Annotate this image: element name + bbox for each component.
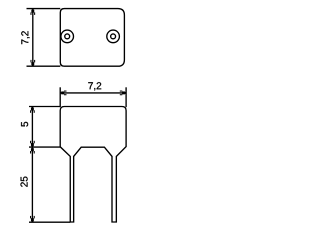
arrow left of 7,2 width dimension (60, 91, 66, 96)
pin 1 outer circle (top view) (61, 30, 74, 43)
extension line left (7,2 width dimension) (59, 87, 61, 107)
arrow down of 25 dimension (30, 216, 35, 222)
extension line at body bottom (5 / 25 dimensions) (29, 146, 60, 148)
label 7,2 (front view width) (88, 82, 101, 90)
arrow up of 7,2 depth dimension (30, 9, 35, 15)
arrow down of 7,2 depth dimension (30, 60, 35, 66)
extension line right (7,2 width dimension) (125, 87, 127, 107)
label 25 (lead length) rotated (21, 177, 28, 187)
top view body outline (60, 9, 124, 67)
pin 2 outer circle (top view) (107, 30, 120, 43)
arrow up of 5 dimension (30, 107, 35, 113)
extension line bottom of leads (25 dimension) (29, 221, 70, 223)
arrow down of 5 dimension (30, 141, 35, 147)
extension line bottom (7,2 depth dimension) (27, 65, 61, 67)
dimension line 7,2 width (horizontal) (61, 92, 126, 94)
pin 1 inner circle (top view) (65, 34, 70, 39)
dimension line 5 (vertical) (31, 107, 33, 147)
arrow right of 7,2 width dimension (120, 91, 126, 96)
dimension line 25 (vertical) (31, 147, 33, 222)
pin 2 inner circle (top view) (111, 34, 116, 39)
extension line left of body top (5 dimension) (29, 106, 60, 108)
label 7,2 (top view depth) rotated (21, 31, 29, 44)
front view body with leads outline (60, 107, 126, 223)
extension line top (7,2 depth dimension) (27, 8, 61, 10)
dimension line 7,2 depth (vertical) (32, 9, 34, 66)
arrow up of 25 dimension (30, 147, 35, 153)
label 5 (body height) rotated (21, 122, 28, 127)
